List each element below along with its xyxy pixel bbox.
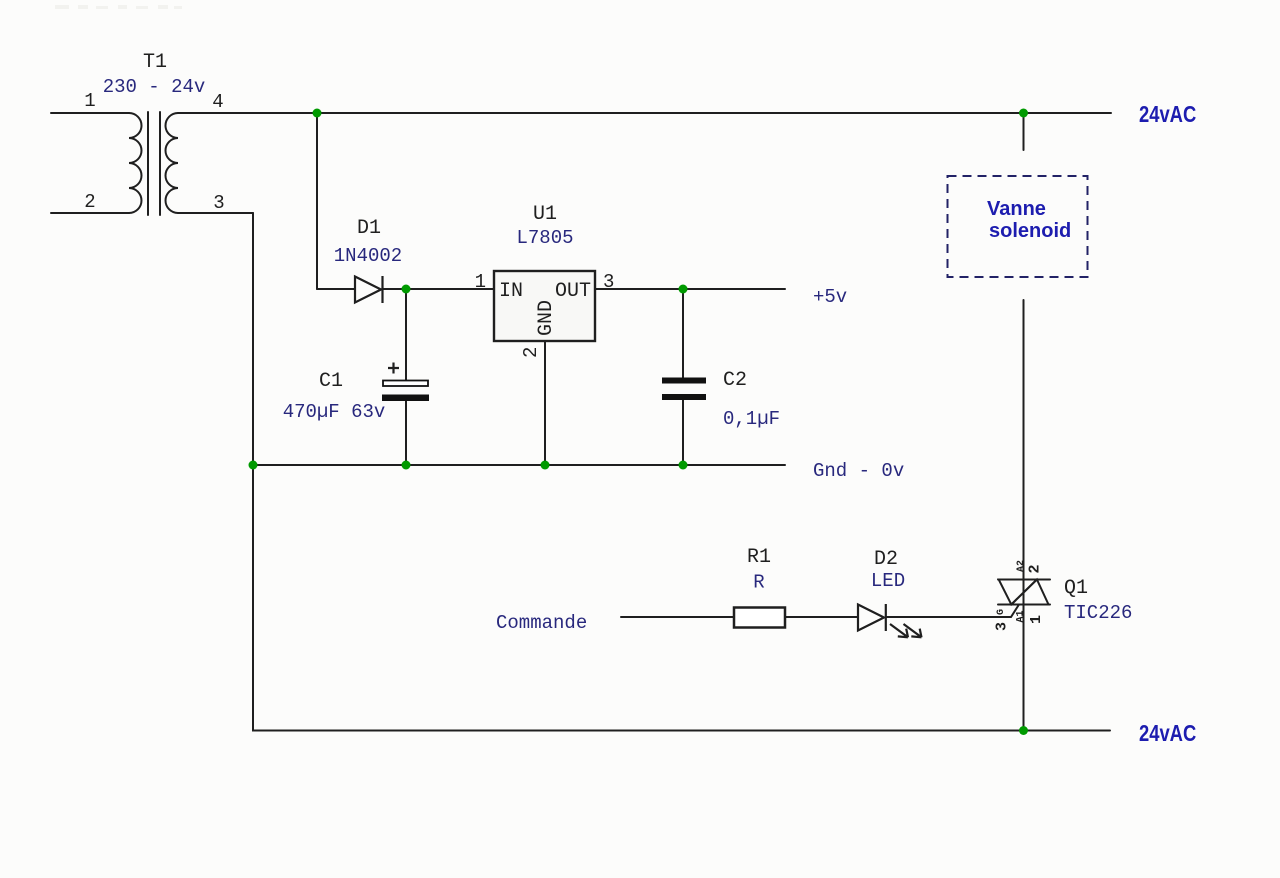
svg-text:OUT: OUT	[555, 280, 591, 303]
svg-text:TIC226: TIC226	[1064, 602, 1132, 624]
svg-text:1: 1	[84, 90, 95, 112]
svg-text:3: 3	[213, 192, 224, 214]
svg-text:3: 3	[603, 271, 614, 293]
svg-text:2: 2	[520, 347, 542, 358]
svg-text:GND: GND	[535, 300, 558, 336]
svg-text:1: 1	[1028, 615, 1045, 624]
svg-text:C2: C2	[723, 369, 747, 392]
svg-text:4: 4	[212, 91, 223, 113]
svg-text:G: G	[996, 609, 1007, 615]
svg-text:L7805: L7805	[516, 227, 573, 249]
svg-text:Q1: Q1	[1064, 577, 1088, 600]
svg-text:1N4002: 1N4002	[334, 245, 402, 267]
svg-text:24vAC: 24vAC	[1139, 721, 1196, 746]
svg-text:230 - 24v: 230 - 24v	[103, 76, 206, 98]
svg-text:470µF 63v: 470µF 63v	[283, 401, 386, 423]
svg-text:Commande: Commande	[496, 612, 587, 634]
svg-text:D2: D2	[874, 548, 898, 571]
svg-text:+5v: +5v	[813, 286, 847, 308]
svg-text:R1: R1	[747, 546, 771, 569]
svg-text:C1: C1	[319, 370, 343, 393]
svg-text:U1: U1	[533, 203, 557, 226]
svg-text:A2: A2	[1016, 560, 1027, 572]
svg-text:R: R	[753, 572, 764, 594]
svg-text:0,1µF: 0,1µF	[723, 408, 780, 430]
svg-text:Gnd - 0v: Gnd - 0v	[813, 460, 904, 482]
svg-text:24vAC: 24vAC	[1139, 102, 1196, 127]
svg-text:D1: D1	[357, 217, 381, 240]
svg-text:2: 2	[84, 191, 95, 213]
svg-text:solenoid: solenoid	[989, 220, 1071, 242]
svg-text:3: 3	[994, 622, 1011, 631]
svg-text:IN: IN	[499, 280, 523, 303]
svg-text:1: 1	[475, 271, 486, 293]
svg-text:T1: T1	[143, 51, 167, 74]
svg-text:2: 2	[1027, 564, 1044, 573]
svg-text:LED: LED	[871, 570, 905, 592]
svg-text:A1: A1	[1016, 610, 1027, 622]
svg-text:Vanne: Vanne	[987, 198, 1046, 220]
